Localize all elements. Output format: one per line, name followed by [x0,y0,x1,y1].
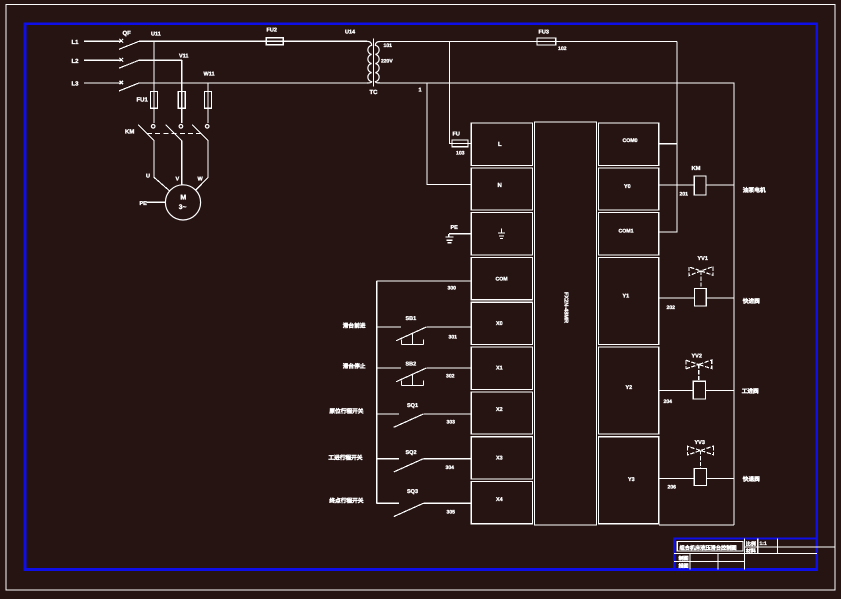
wire Y3 to YV3 coil [659,477,694,479]
svg-text:N: N [498,182,502,189]
title block left row line 1 [674,553,744,555]
PLC cell COM [471,258,532,300]
svg-text:201: 201 [680,192,689,198]
svg-text:W: W [198,177,204,183]
coil YV1 [694,288,706,306]
breaker QF pole 2 cross [120,58,124,62]
svg-text:PE: PE [451,225,459,231]
svg-text:油泵电机: 油泵电机 [743,187,766,194]
wire Y0 to KM coil [659,184,694,186]
svg-text:SQ1: SQ1 [407,403,418,409]
PLC cell Y2 [599,347,659,434]
wire L1 feed [84,40,121,42]
title block right vert 2 [776,539,778,554]
svg-text:YV2: YV2 [692,354,702,360]
svg-text:KM: KM [125,129,134,136]
svg-text:材料: 材料 [745,548,756,555]
svg-text:204: 204 [664,399,673,405]
svg-text:L3: L3 [72,81,80,88]
title block left row line 2 [674,561,744,563]
svg-text:Y1: Y1 [623,294,630,300]
svg-text:M: M [180,195,186,202]
fuse FU4 [452,140,468,147]
PLC cell COM1 [599,213,659,255]
wire secondary top to FU3 [380,41,677,43]
PLC cell COM0 [599,123,659,165]
svg-text:V: V [176,177,180,183]
coil YV2 [693,381,705,399]
breaker QF pole 3 blade [119,83,139,91]
svg-text:202: 202 [667,305,676,311]
svg-text:SQ2: SQ2 [406,450,417,456]
svg-text:102: 102 [558,46,567,52]
breaker QF pole 1 cross [120,39,124,43]
wire input bus [376,281,378,503]
wire motor phase V [181,141,183,185]
svg-text:X0: X0 [496,321,503,327]
fuse FU1 phase2 [178,92,185,109]
ground symbol external PE [445,234,453,243]
svg-text:COM0: COM0 [623,138,638,144]
svg-text:滑台停止: 滑台停止 [343,363,366,370]
wire U11 drop [153,41,155,123]
svg-text:描图: 描图 [679,563,689,570]
svg-text:快进阀: 快进阀 [742,298,760,305]
svg-text:U11: U11 [151,32,161,38]
ground symbol in cell [498,229,505,239]
wire V11 drop [181,60,183,123]
title block right row line 1 [745,546,836,548]
svg-text:滑台前进: 滑台前进 [343,323,366,330]
PLC body [471,122,659,525]
svg-text:V11: V11 [179,54,188,60]
svg-text:303: 303 [447,420,456,426]
wire FU3 to COM0 corner [676,42,678,144]
limit switch SQ3 [377,503,471,516]
svg-text:组合机床液压滑台控制图: 组合机床液压滑台控制图 [680,545,737,552]
contactor KM contact 1 [151,125,155,129]
svg-text:YV3: YV3 [695,440,705,446]
svg-text:300: 300 [448,286,457,292]
title block blue outline [674,539,817,570]
svg-text:X4: X4 [496,497,503,503]
wire L3 to transformer [139,82,367,84]
wire YV3 coil to bus [707,477,734,479]
wire YV1 coil to bus [706,297,734,299]
svg-text:FX2N-48MR: FX2N-48MR [563,292,569,323]
svg-text:YV1: YV1 [698,256,708,262]
wire motor phase W [196,141,208,190]
svg-text:206: 206 [668,485,677,491]
PLC cell X1 [471,347,532,389]
svg-text:U14: U14 [345,30,356,36]
title block right row line 2 [745,552,817,554]
svg-text:SQ3: SQ3 [407,489,418,495]
svg-text:L2: L2 [72,58,80,65]
svg-text:QF: QF [123,30,132,37]
wire L2 feed [84,59,121,61]
coil YV3 [694,469,706,486]
limit switch SQ2 [377,459,471,472]
fuse FU3 [537,38,556,45]
svg-text:PE: PE [140,201,148,207]
breaker QF pole 1 blade [119,41,139,49]
contactor KM contact 2 [179,125,183,129]
svg-text:X1: X1 [496,366,503,372]
wire Y1 to YV1 coil [659,297,694,299]
coil KM [694,176,706,195]
wire PLC bottom to bus [659,524,734,526]
svg-text:103: 103 [456,151,465,157]
svg-text:W11: W11 [204,72,215,78]
svg-text:COM1: COM1 [619,229,634,235]
contactor KM linkage dashed [147,132,202,134]
PLC cell Y3 [599,437,659,524]
svg-text:1:1: 1:1 [760,541,767,547]
wire motor phase U [154,141,170,191]
svg-text:原位行程开关: 原位行程开关 [329,408,363,415]
svg-text:FU1: FU1 [137,97,149,104]
wire PE terminal [449,233,471,235]
limit switch SQ1 [377,414,471,427]
svg-text:FU3: FU3 [539,30,549,36]
PLC cell X0 [471,302,532,344]
PLC cell X2 [471,392,532,434]
motor M circle [165,185,200,220]
title cell [677,542,743,552]
wire YV2 coil to bus [705,390,734,392]
wire Y2 to YV2 coil [659,390,693,392]
svg-text:比例: 比例 [746,541,756,548]
svg-text:1: 1 [419,88,422,94]
PLC cell Y1 [599,258,659,345]
wire PE to motor [147,201,166,203]
svg-text:工进阀: 工进阀 [742,388,759,395]
svg-text:3~: 3~ [179,204,187,211]
svg-text:制图: 制图 [679,555,689,562]
inputs left [377,281,471,517]
wire L3 feed [84,82,121,84]
valve YV3 [688,446,714,468]
valve YV1 [689,267,713,289]
svg-text:TC: TC [370,89,379,96]
wire COM line [377,280,471,282]
svg-text:KM: KM [692,166,701,172]
svg-text:101: 101 [384,43,393,49]
svg-text:快退阀: 快退阀 [742,476,760,483]
svg-text:304: 304 [446,465,455,471]
svg-text:305: 305 [447,510,456,516]
svg-text:终点行程开关: 终点行程开关 [328,498,363,505]
pushbutton SB1 [377,327,471,341]
title block divider vertical [744,539,746,570]
svg-text:工进行程开关: 工进行程开关 [328,455,362,462]
svg-text:Y2: Y2 [626,385,633,391]
wire L2 to V11 corner [139,59,182,61]
title block [674,539,835,570]
PLC center body [535,122,597,525]
pushbutton SB2 [377,368,471,382]
wire tee down to PLC L fuse [450,42,472,144]
svg-text:Y0: Y0 [624,184,631,190]
svg-text:FU2: FU2 [267,28,277,34]
svg-text:L: L [498,141,502,148]
svg-text:302: 302 [446,374,455,380]
fuse FU1 phase3 [205,92,212,109]
outputs right [659,176,734,486]
svg-text:SB2: SB2 [406,362,417,368]
PLC cell N [471,168,532,210]
fuse FU2 [266,38,283,45]
svg-text:301: 301 [449,335,458,341]
svg-text:SB1: SB1 [406,316,417,322]
svg-text:X3: X3 [496,456,503,462]
breaker QF pole 2 blade [119,60,139,68]
svg-text:L1: L1 [72,39,80,46]
svg-text:Y3: Y3 [628,477,635,483]
wire secondary bottom to right bus [380,83,734,525]
transformer TC secondary coil [375,42,380,83]
title block left vert 2 [717,554,719,570]
PLC cell X3 [471,437,532,479]
fuse FU1 phase1 [151,92,158,109]
svg-text:COM: COM [496,277,508,283]
wire tee down to N terminal [427,83,471,185]
title block left vert 1 [689,554,691,570]
wire W11 drop [207,83,209,123]
svg-text:220V: 220V [381,59,393,65]
PLC cell ground [471,213,532,255]
svg-text:X2: X2 [496,407,503,413]
PLC cell X4 [471,482,532,524]
title block right vert 1 [757,539,759,554]
contactor KM contact 3 [205,125,209,129]
wire COM0 jumper to COM1 [659,144,677,232]
svg-text:U: U [146,174,150,180]
PLC cell Y0 [599,168,659,210]
wire L1 to transformer [139,40,367,42]
PLC cell L [471,123,532,165]
svg-text:FU: FU [453,132,460,138]
transformer TC primary coil [367,41,372,83]
breaker QF pole 3 cross [120,81,124,85]
wire KM coil to bus [706,184,734,186]
valve YV2 [686,360,712,381]
transformer TC core [373,39,375,87]
